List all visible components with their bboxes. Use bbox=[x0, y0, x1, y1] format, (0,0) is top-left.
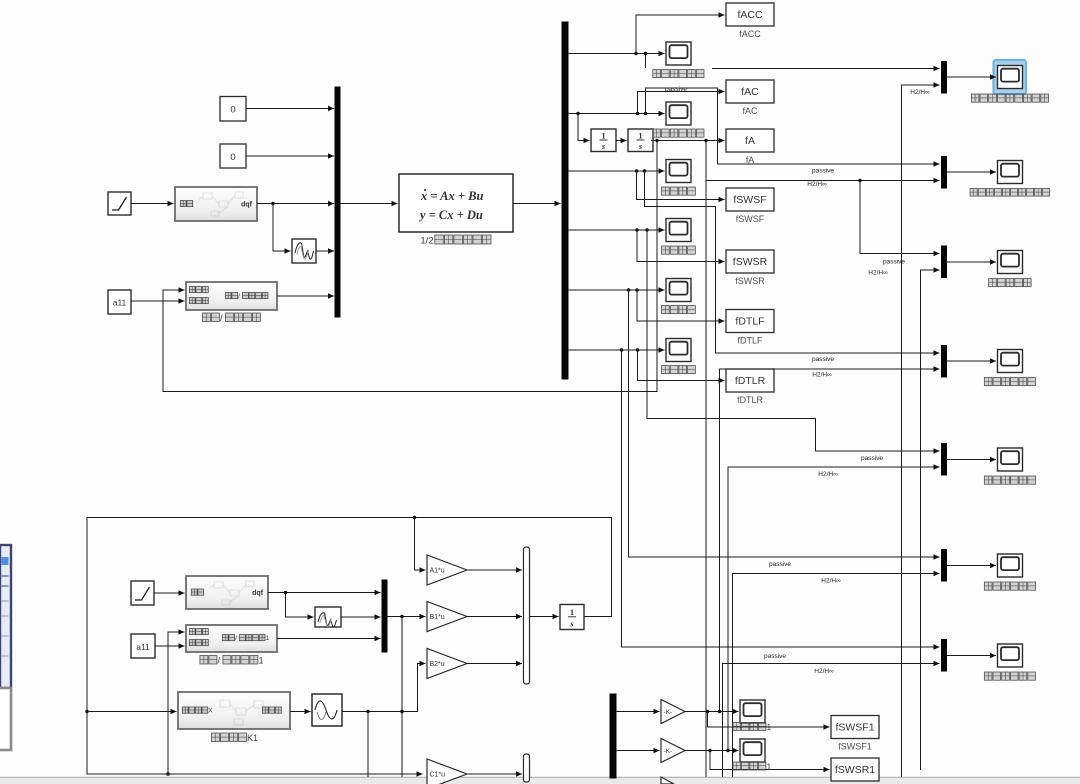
wire state branch to gain A1 bbox=[415, 518, 426, 573]
label H2/Hinf (mux5 wire) bbox=[818, 471, 838, 478]
svg-text:H2/H∞: H2/H∞ bbox=[818, 471, 838, 478]
svg-text:H2/H∞: H2/H∞ bbox=[812, 372, 832, 379]
ramp source block (bottom) bbox=[131, 581, 154, 605]
wire integrator1 to integrator2 bbox=[616, 138, 627, 143]
constant block a11 (top) bbox=[108, 290, 131, 314]
scope 后动挠度 bbox=[666, 219, 691, 242]
svg-text:fA: fA bbox=[745, 135, 755, 147]
constant block 0 (second) bbox=[220, 144, 246, 168]
scope 俯仰角加速度 bbox=[666, 102, 691, 125]
svg-text:K1: K1 bbox=[247, 733, 258, 743]
constant block a11 (bottom) bbox=[131, 634, 155, 658]
gain A1*u bbox=[427, 555, 467, 585]
svg-text:/: / bbox=[235, 635, 237, 642]
svg-text:0: 0 bbox=[230, 152, 235, 163]
svg-text:1: 1 bbox=[570, 607, 574, 617]
wire demux out6 to scope bbox=[568, 347, 665, 352]
wire H2 signal up to mux1 bbox=[902, 82, 940, 777]
svg-text:B2*u: B2*u bbox=[430, 661, 445, 668]
label fSWSF1 bbox=[838, 742, 872, 752]
wire branch to fSWSR bbox=[637, 230, 725, 264]
wire demux out5 to scope bbox=[568, 287, 665, 292]
svg-text:fAC: fAC bbox=[741, 86, 759, 98]
wire branch to mux2 second input bbox=[706, 141, 940, 184]
label H2/Hinf (mux4 wire) bbox=[812, 372, 832, 379]
wire H2 signal up to mux4 bbox=[720, 366, 940, 711]
wire vertical descending at x368 bbox=[367, 712, 369, 778]
wire H2 signal up to mux7 bbox=[723, 661, 940, 777]
svg-text:passive: passive bbox=[769, 561, 791, 568]
label 后动载荷对比 bbox=[984, 672, 1035, 680]
to-workspace fSWSR1 bbox=[831, 758, 879, 781]
wire feedback loop from integrator bbox=[85, 516, 611, 777]
label 车身垂直加速度对比 bbox=[971, 94, 1048, 102]
to-workspace fAC bbox=[726, 80, 774, 103]
label H2/Hinf (mux3 wire) bbox=[868, 270, 888, 277]
wire passive ACC to mux1 bbox=[646, 54, 940, 72]
label H2/Hinf (mux1 wire) bbox=[910, 89, 930, 96]
wire gain B1 to sum bbox=[467, 614, 522, 619]
svg-text:x = Ax + Bu: x = Ax + Bu bbox=[420, 189, 483, 203]
comparison scope 前动载荷对比 bbox=[998, 554, 1023, 577]
wire 加速/制动力矩 to mux bbox=[277, 293, 334, 298]
wire -K- to scope 前动挠度1 bbox=[685, 709, 739, 714]
wire bottom mux2 to -K- first bbox=[616, 709, 660, 714]
wire dqf branch to noise block bbox=[273, 204, 291, 254]
svg-text:fDTLF: fDTLF bbox=[735, 316, 764, 328]
前动载荷对比 mux bbox=[942, 550, 947, 582]
label passive (mux6 wire) bbox=[769, 561, 791, 568]
wire dqf1 output to bottom mux bbox=[268, 590, 381, 595]
label passive (mux4 wire) bbox=[812, 356, 834, 363]
svg-text:1: 1 bbox=[259, 655, 264, 665]
label 车身俯仰角加速度对比 bbox=[970, 189, 1050, 197]
svg-text:H2/H∞: H2/H∞ bbox=[821, 578, 841, 585]
integrator 1/s (first) bbox=[591, 129, 616, 152]
svg-text:passive: passive bbox=[812, 356, 834, 363]
wire a11 to 加速度1 port bbox=[155, 643, 185, 648]
label fDTLF bbox=[737, 336, 763, 346]
subsystem 车速->dqf (top) bbox=[175, 187, 257, 221]
wire demux out2 to scope bbox=[568, 111, 665, 116]
wire constant0-2 to mux bbox=[246, 153, 334, 158]
svg-text:a11: a11 bbox=[136, 642, 150, 652]
wire passive to mux6 first input bbox=[629, 290, 940, 560]
svg-text:s: s bbox=[638, 141, 643, 151]
label 加速/制动力矩1 bbox=[200, 655, 264, 665]
svg-text:fACC: fACC bbox=[737, 9, 763, 21]
svg-text:1: 1 bbox=[601, 130, 605, 140]
svg-text:H2/H∞: H2/H∞ bbox=[807, 181, 827, 188]
wire integrator2 to fA bbox=[651, 138, 725, 143]
wire mux2 to comparison scope bbox=[947, 169, 997, 174]
wire mux3 to comparison scope bbox=[947, 259, 997, 264]
svg-text:fSWSF: fSWSF bbox=[733, 194, 766, 206]
wire mux4 to comparison scope bbox=[947, 358, 997, 363]
svg-text:passive: passive bbox=[764, 653, 786, 660]
wire mux1 to comparison scope bbox=[947, 74, 997, 79]
label 后动挠度对比 bbox=[984, 476, 1035, 484]
wire state X to 增益矩阵K1 bbox=[87, 709, 177, 714]
wire ramp to 车速 subsystem bbox=[131, 201, 174, 206]
wire passive to mux4 first input bbox=[645, 171, 940, 356]
integrator 1/s (second) bbox=[628, 129, 653, 152]
svg-text:passive: passive bbox=[883, 259, 905, 266]
sum block (tall thin, bottom) bbox=[524, 754, 530, 782]
to-workspace fDTLR bbox=[726, 369, 774, 392]
wire vertical descending at x402 bbox=[400, 617, 403, 778]
label 加速/制动力矩 bbox=[202, 313, 260, 323]
svg-text:fSWSF1: fSWSF1 bbox=[835, 722, 874, 734]
svg-text:dqf: dqf bbox=[252, 590, 264, 597]
label 后动挠度 bbox=[662, 246, 696, 254]
svg-text:fDTLF: fDTLF bbox=[737, 336, 763, 346]
gain B1*u bbox=[427, 602, 467, 632]
wire demux out4 to scope bbox=[568, 227, 665, 232]
scope 车身垂直加速度 bbox=[666, 42, 691, 65]
wire dqf output to mux bbox=[257, 201, 334, 206]
svg-text:fACC: fACC bbox=[739, 29, 761, 39]
wire branch to fDTLR bbox=[638, 350, 725, 383]
svg-text:fSWSF: fSWSF bbox=[736, 214, 765, 224]
label 俯仰角对比 bbox=[989, 279, 1031, 287]
to-workspace fSWSF bbox=[726, 188, 774, 211]
svg-text:X: X bbox=[208, 708, 213, 715]
svg-text:-K-: -K- bbox=[664, 748, 673, 755]
wire pitch feedback to 俯仰角 port bbox=[163, 141, 657, 392]
subsystem 车速->dqf (bottom) bbox=[186, 576, 268, 609]
label passive (mux7 wire) bbox=[764, 653, 786, 660]
sum block (tall thin, top) bbox=[524, 547, 530, 684]
wire branch to fSWSR1 bbox=[710, 751, 830, 773]
wire ramp to 车速 subsystem (bottom) bbox=[154, 590, 185, 595]
wire passive pitch-acc to mux2 bbox=[646, 88, 940, 167]
label H2/Hinf (mux2 wire) bbox=[807, 181, 827, 188]
gain C1*u bbox=[427, 759, 467, 784]
label fSWSF bbox=[736, 214, 765, 224]
wire noise block to mux bbox=[316, 248, 334, 253]
label fDTLR bbox=[737, 395, 764, 405]
车身垂直加速度对比 mux bbox=[942, 62, 947, 94]
后动挠度对比 mux bbox=[942, 444, 947, 476]
label 前动载荷 bbox=[662, 306, 696, 314]
svg-text:1: 1 bbox=[265, 635, 269, 642]
label fA bbox=[746, 155, 755, 165]
label passive (mux1 wire) bbox=[665, 86, 687, 93]
svg-text:passive: passive bbox=[812, 168, 834, 175]
后动载荷对比 mux bbox=[942, 640, 947, 672]
mux (top input mux) bbox=[335, 87, 340, 317]
label 后动挠度1 bbox=[733, 761, 772, 771]
scope 后动载荷 bbox=[666, 339, 691, 362]
wire mux7 to comparison scope bbox=[947, 653, 997, 658]
left floating palette panel bbox=[0, 545, 11, 688]
state-space block 1/2被动悬架模型 bbox=[399, 174, 513, 232]
svg-text:fSWSR: fSWSR bbox=[733, 256, 768, 268]
ramp source block bbox=[108, 192, 131, 215]
wire passive to mux5 first input bbox=[647, 230, 940, 454]
svg-text:fDTLR: fDTLR bbox=[737, 395, 764, 405]
label 前动挠度1 bbox=[733, 722, 772, 732]
subsystem 加速/制动力矩1 bbox=[186, 625, 277, 652]
svg-text:dqf: dqf bbox=[241, 202, 253, 209]
wire branch to fAC bbox=[638, 89, 725, 114]
wire H2 signal up to mux3 bbox=[921, 267, 940, 770]
svg-text:0: 0 bbox=[230, 105, 235, 116]
wire branch to fACC bbox=[636, 12, 725, 53]
svg-text:fAC: fAC bbox=[742, 106, 758, 116]
left partial dialog box bbox=[0, 688, 11, 750]
svg-text:1: 1 bbox=[767, 722, 772, 732]
svg-text:1: 1 bbox=[767, 761, 772, 771]
svg-text:s: s bbox=[569, 619, 574, 629]
comparison scope 后动载荷对比 bbox=[998, 644, 1023, 667]
comparison scope 车身俯仰角加速度对比 bbox=[998, 161, 1023, 184]
wire -K- to scope 后动挠度1 bbox=[685, 748, 739, 753]
wire 控制力 to gain B2 bbox=[342, 661, 426, 713]
前动挠度对比 mux bbox=[942, 346, 947, 378]
label passive (mux5 wire) bbox=[861, 455, 883, 462]
svg-text:passive: passive bbox=[861, 455, 883, 462]
svg-text:-K-: -K- bbox=[664, 709, 673, 716]
scope 后动挠度1 bbox=[740, 739, 765, 762]
label 车身垂直加速度 (with background) bbox=[645, 68, 712, 81]
wire branch to integrator1 bbox=[578, 114, 590, 144]
gain -K- (first) bbox=[661, 700, 685, 724]
wire branch to mux3 first input bbox=[860, 181, 940, 257]
scope 前动载荷 bbox=[666, 279, 691, 302]
wire constant0-1 to mux bbox=[246, 106, 334, 111]
svg-text:passive: passive bbox=[665, 86, 687, 93]
wire passive to mux7 first input bbox=[622, 350, 940, 650]
label fSWSR bbox=[735, 276, 765, 286]
wire long vertical from fA junction bbox=[705, 141, 707, 778]
label 后动载荷 bbox=[662, 366, 696, 374]
svg-text:H2/H∞: H2/H∞ bbox=[868, 270, 888, 277]
label 前动挠度对比 bbox=[984, 378, 1035, 386]
wire state-space to demux bbox=[513, 201, 561, 206]
comparison scope 前动挠度对比 bbox=[998, 350, 1023, 373]
俯仰角对比 mux bbox=[942, 246, 947, 278]
scope 前动挠度1 bbox=[740, 700, 765, 723]
integrator 1/s (bottom) bbox=[560, 605, 584, 630]
svg-text:1: 1 bbox=[638, 130, 642, 140]
svg-text:s: s bbox=[601, 141, 606, 151]
wire pitch1 feedback to 俯仰角 port bbox=[168, 629, 185, 774]
svg-text:fSWSR: fSWSR bbox=[735, 276, 765, 286]
label 俯仰角加速度 bbox=[653, 129, 704, 137]
车身俯仰角加速度对比 mux bbox=[942, 157, 947, 189]
label 前动载荷对比 bbox=[984, 582, 1035, 590]
wire bottom mux2 to -K- second bbox=[616, 748, 660, 753]
wire gain C1 to sum2 bbox=[467, 771, 522, 776]
band-limited white noise block (top) bbox=[292, 239, 316, 263]
mux (bottom output demux) bbox=[610, 694, 616, 778]
gain -K- (third, partially visible) bbox=[661, 777, 674, 784]
wire demux out1 to scope bbox=[568, 51, 665, 56]
svg-text:fSWSR1: fSWSR1 bbox=[835, 764, 875, 776]
subsystem 加速/制动力矩 (top) bbox=[186, 282, 277, 310]
label fACC bbox=[739, 29, 761, 39]
band-limited white noise block (bottom) bbox=[315, 607, 341, 627]
comparison scope 车身垂直加速度对比 bbox=[998, 66, 1023, 89]
to-workspace fA bbox=[726, 129, 774, 152]
svg-text:a11: a11 bbox=[113, 298, 127, 308]
svg-text:/: / bbox=[238, 293, 240, 300]
svg-text:fDTLR: fDTLR bbox=[735, 375, 766, 387]
to-workspace fACC bbox=[726, 3, 774, 26]
wire mux to state-space bbox=[340, 201, 398, 206]
label H2/Hinf (mux6 wire) bbox=[821, 578, 841, 585]
scope 前动挠度 bbox=[666, 160, 691, 183]
label fAC bbox=[742, 106, 758, 116]
comparison scope 俯仰角对比 bbox=[998, 251, 1023, 274]
wire bottom mux to gain B1 bbox=[387, 614, 426, 619]
svg-text:y = Cx + Du: y = Cx + Du bbox=[418, 208, 483, 222]
svg-text:C1*u: C1*u bbox=[430, 771, 446, 778]
svg-text:B1*u: B1*u bbox=[430, 614, 445, 621]
gain -K- (second) bbox=[661, 739, 685, 763]
to-workspace fDTLF bbox=[726, 310, 774, 333]
wire H2 signal up to mux5 bbox=[728, 464, 940, 750]
label passive (mux2 wire) bbox=[812, 168, 834, 175]
wire dqf1 branch to noise block bbox=[286, 593, 314, 620]
wire noise to bottom mux bbox=[341, 614, 381, 619]
wire 加速/制动力矩1 to bottom mux bbox=[277, 636, 381, 641]
wire a11 to 加速度 port bbox=[131, 298, 185, 303]
wire branch to fDTLF bbox=[637, 290, 725, 324]
wire mux6 to comparison scope bbox=[947, 563, 997, 568]
label passive (mux3 wire) bbox=[883, 259, 905, 266]
gain B2*u bbox=[427, 649, 467, 679]
label 1/2被动悬架模型 bbox=[420, 235, 491, 246]
label 前动挠度 bbox=[662, 187, 696, 195]
svg-text:1/2: 1/2 bbox=[420, 235, 433, 246]
wire sum to integrator (bottom) bbox=[530, 614, 559, 619]
svg-text:H2/H∞: H2/H∞ bbox=[814, 668, 834, 675]
wire branch to fSWSF1 bbox=[708, 712, 830, 730]
selection highlight on 车身垂直加速度对比 scope bbox=[994, 60, 1027, 94]
comparison scope 后动挠度对比 bbox=[998, 448, 1023, 471]
wire H2 signal up to mux6 bbox=[733, 571, 940, 777]
signal generator block (sine) bbox=[312, 694, 342, 726]
mux (bottom input mux) bbox=[382, 580, 387, 652]
label H2/Hinf (mux7 wire) bbox=[814, 668, 834, 675]
to-workspace fSWSR bbox=[726, 250, 774, 273]
demux (state output demux) bbox=[562, 22, 568, 379]
subsystem 增益矩阵K1 bbox=[178, 692, 290, 729]
to-workspace fSWSF1 bbox=[831, 716, 879, 739]
wire mux5 to comparison scope bbox=[947, 457, 997, 462]
svg-text:fSWSF1: fSWSF1 bbox=[838, 742, 872, 752]
constant block 0 (first) bbox=[220, 97, 246, 122]
label 增益矩阵K1 bbox=[211, 733, 258, 743]
bottom window scrollbar band bbox=[0, 777, 1080, 784]
wire gain A1 to sum bbox=[467, 567, 522, 572]
wire branch to fSWSF bbox=[637, 171, 725, 202]
svg-text:A1*u: A1*u bbox=[430, 567, 445, 574]
wire demux out3 to scope bbox=[568, 168, 665, 173]
wire gain B2 to sum bbox=[467, 661, 522, 666]
wire K1 to signal generator bbox=[290, 709, 311, 714]
svg-text:H2/H∞: H2/H∞ bbox=[910, 89, 930, 96]
